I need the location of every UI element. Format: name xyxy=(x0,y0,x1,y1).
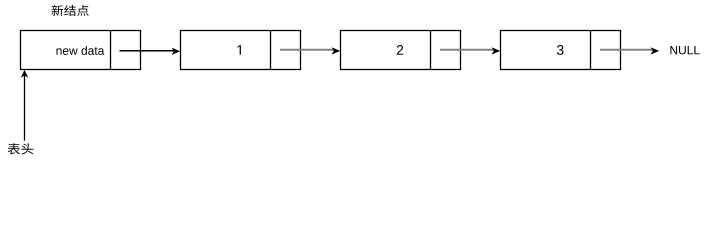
node box 2 xyxy=(341,31,461,70)
wire arrow node 2 to node 3 xyxy=(440,49,495,51)
label 表头 (list head) xyxy=(8,143,34,154)
wire arrow node 1 to node 2 xyxy=(280,49,335,51)
label 新结点 (new node) xyxy=(52,5,89,16)
divider node 1 box xyxy=(270,31,272,70)
wire arrow head pointer up to new data box xyxy=(24,75,26,141)
wire arrow new data to node 1 xyxy=(120,50,175,52)
wire arrow node 3 to NULL xyxy=(600,49,654,51)
label 2 xyxy=(397,45,403,55)
label 1 xyxy=(237,45,240,55)
node box 3 xyxy=(501,31,621,70)
node box new data xyxy=(21,31,141,70)
node box 1 xyxy=(181,31,301,70)
divider node 3 box xyxy=(590,31,592,70)
divider new data box xyxy=(110,31,112,70)
label new data xyxy=(56,46,104,55)
label 3 xyxy=(557,45,564,55)
divider node 2 box xyxy=(430,31,432,70)
label NULL xyxy=(670,46,699,54)
